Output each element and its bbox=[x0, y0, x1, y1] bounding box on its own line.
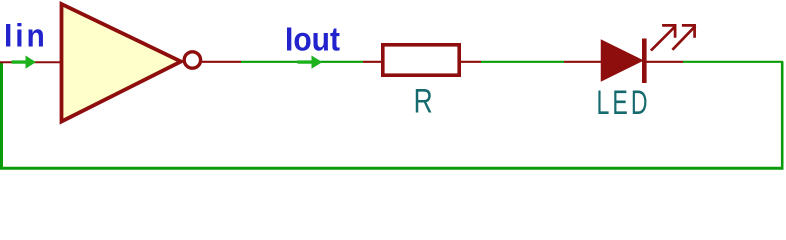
svg-text:R: R bbox=[414, 82, 433, 120]
svg-text:LED: LED bbox=[597, 84, 651, 123]
svg-text:Iout: Iout bbox=[285, 20, 340, 58]
svg-text:Iin: Iin bbox=[4, 17, 48, 53]
